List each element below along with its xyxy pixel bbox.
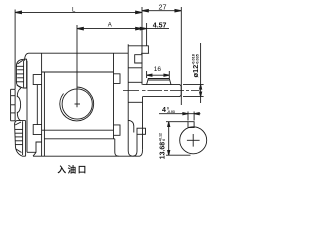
- svg-text:-0.035: -0.035: [196, 54, 200, 65]
- svg-text:0: 0: [162, 139, 166, 141]
- dimension 4.57 arrow: [137, 28, 147, 30]
- boss lower-right: [114, 125, 121, 135]
- flange inner strip line: [36, 85, 38, 125]
- key inner line: [148, 79, 169, 81]
- wire extension line x=146.6 (dim 4.57): [146, 23, 148, 46]
- svg-text:16: 16: [154, 66, 162, 73]
- svg-text:27: 27: [159, 2, 167, 11]
- dim phi12 ext lines: [183, 84, 204, 86]
- dimension 27 line: [142, 10, 181, 12]
- flange-body interface line 1: [41, 53, 43, 156]
- flange wavy contour: [17, 88, 21, 121]
- left bottom step: [33, 142, 42, 156]
- keyway end view circle: [180, 127, 207, 154]
- wire extension line shaft end (dim 27): [180, 7, 182, 105]
- ear lower inner line: [22, 121, 24, 155]
- body lower inner line: [44, 138, 114, 140]
- ear lower slot ticks: [15, 128, 23, 130]
- boss lower-left: [33, 125, 41, 135]
- rear hub top line: [128, 67, 142, 69]
- body right edge: [113, 53, 115, 139]
- svg-text:A: A: [108, 23, 112, 29]
- dim 16 ticks: [146, 71, 148, 78]
- dimension A line: [77, 28, 142, 30]
- label phi12 tolerance (rotated): [191, 54, 200, 77]
- svg-text:ø12: ø12: [191, 65, 200, 78]
- rear notch: [135, 55, 143, 63]
- end view cross: [187, 139, 200, 141]
- dim 4 ext ticks: [187, 112, 189, 121]
- dim 4 line + arrows: [159, 113, 200, 115]
- boss upper-left: [33, 75, 41, 85]
- dim phi12 line + arrows: [200, 43, 202, 103]
- rear face lower: [142, 97, 144, 150]
- label 13.68 tolerance (rotated): [159, 133, 167, 159]
- svg-text:入油口: 入油口: [57, 164, 88, 174]
- keyway square: [188, 122, 194, 128]
- rear hub line top: [128, 81, 142, 83]
- dim 13.68 ext top: [166, 121, 188, 123]
- svg-text:13.68: 13.68: [160, 142, 167, 159]
- flange bottom edge: [27, 151, 36, 153]
- wire centerline vertical through inlet circle: [76, 25, 78, 107]
- wire extension line x=142 (dims L/27): [141, 7, 143, 53]
- rear inner foot corner: [133, 134, 137, 156]
- ear upper lobe: [16, 59, 26, 88]
- ear lower lobe: [15, 121, 26, 157]
- svg-text:-0.03: -0.03: [167, 110, 175, 114]
- ear upper inner line: [23, 60, 25, 87]
- shaft centerline: [123, 90, 200, 92]
- svg-text:4: 4: [162, 107, 166, 114]
- base bottom line: [33, 150, 143, 156]
- svg-text:4.57: 4.57: [153, 22, 167, 29]
- dimension L line: [15, 11, 142, 13]
- ear upper right edge: [26, 59, 28, 88]
- body joint line upper: [42, 71, 114, 73]
- flange-body interface line 2: [43, 72, 45, 156]
- rear ring line: [128, 101, 142, 103]
- top line segment right of block: [141, 52, 149, 54]
- ear upper chamfer: [18, 60, 23, 64]
- body joint line lower: [42, 129, 114, 131]
- rear face upper: [141, 53, 143, 84]
- wire extension line left (dim L): [14, 10, 16, 90]
- spigot edge strip: [10, 89, 12, 121]
- rear cover fillet line: [128, 120, 134, 132]
- dim 13.68 ext bottom: [166, 154, 191, 156]
- inlet port outer arc: [60, 87, 94, 121]
- ear upper slot ticks: [16, 65, 23, 67]
- shaft key: [147, 79, 171, 85]
- flange face line: [26, 61, 28, 153]
- inlet center cross: [75, 103, 81, 105]
- ear lower right edge: [25, 121, 27, 157]
- pump top edge line: [25, 53, 129, 61]
- dim 16 line: [147, 74, 170, 76]
- shaft outline: [143, 85, 182, 97]
- rear cover left vertical: [128, 44, 132, 156]
- inlet port inner circle: [62, 89, 92, 119]
- rear top block: [128, 46, 148, 54]
- boss upper-right: [114, 74, 121, 84]
- foot right vertical: [115, 139, 119, 156]
- rear small block right: [137, 128, 146, 134]
- dim 13.68 line: [168, 122, 170, 156]
